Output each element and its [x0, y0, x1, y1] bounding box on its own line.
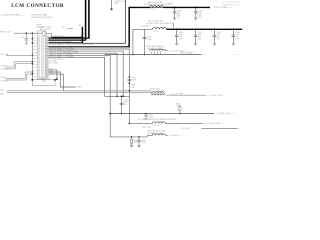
transistor Q4100 — [47, 33, 52, 35]
svg-text:C401: C401 — [21, 37, 25, 39]
filter L9 on top rail — [144, 2, 171, 11]
capacitor C421 — [194, 28, 202, 45]
connector left wire bus — [31, 33, 33, 79]
svg-text:57: 57 — [42, 77, 44, 79]
svg-text:LED-: LED- — [0, 94, 4, 96]
fanout wire F4 — [49, 55, 148, 137]
resistor R445 — [176, 103, 181, 114]
svg-text:LCDA_P: LCDA_P — [0, 65, 8, 68]
resistor R459 hanging — [130, 136, 139, 147]
thick bus rail right mid — [167, 28, 243, 30]
capacitor C423 — [232, 28, 240, 45]
svg-text:BKL_EN 1K: BKL_EN 1K — [40, 29, 51, 31]
svg-text:LCM CONNECTOR: LCM CONNECTOR — [11, 3, 64, 9]
svg-text:LCD_PWR_EN AA: LCD_PWR_EN AA — [49, 35, 65, 38]
svg-text:(LT_LIGHT+) -- --: (LT_LIGHT+) -- -- — [169, 135, 183, 137]
rail 113 — [110, 113, 214, 115]
svg-text:LCDB_N: LCDB_N — [0, 81, 8, 83]
svg-text:LCD_TEST: LCD_TEST — [49, 63, 59, 65]
svg-text:LISTED(S) PLAN: LISTED(S) PLAN — [31, 14, 48, 17]
svg-text:LCD_LED_PWR: LCD_LED_PWR — [171, 94, 184, 96]
power stub PP3V3_LCD — [111, 0, 126, 10]
capacitor C420 — [175, 28, 183, 45]
filter L10 — [146, 21, 173, 33]
bottom cluster: filter RP459 — [147, 131, 182, 138]
fanout wire F3 — [49, 53, 118, 96]
thick bus wire R2 net LVDS1 — [49, 39, 86, 41]
svg-text:PP3V3_LCD: PP3V3_LCD — [0, 31, 11, 33]
left wire W5 — [6, 74, 33, 80]
svg-text:47-30R5-71R-4-1-A-100-BK5-10: 47-30R5-71R-4-1-A-100-BK5-10 — [146, 22, 173, 25]
connector box J4500 — [38, 31, 45, 80]
svg-text:LCDA_N: LCDA_N — [0, 68, 8, 71]
left wire W3 — [6, 64, 33, 69]
left wire W4 — [6, 72, 33, 78]
backlight enable circuit Q4 — [0, 27, 73, 45]
svg-text:-- PP5V_LCDBKLT ------: -- PP5V_LCDBKLT ------ — [213, 7, 234, 9]
C435 R435 on F1 vertical — [128, 76, 138, 92]
svg-text:PP5V_LCDBKLT: PP5V_LCDBKLT — [180, 53, 194, 55]
capacitor C424 mid — [132, 29, 152, 55]
svg-text:LVDS_A_CLK_P 10-10HM-5: LVDS_A_CLK_P 10-10HM-5 — [49, 40, 72, 43]
svg-text:--- --: --- -- — [238, 128, 242, 130]
svg-text:J1 LVDS 40 PIN MLB: J1 LVDS 40 PIN MLB — [0, 15, 20, 17]
fanout wire F1 — [49, 49, 130, 123]
svg-text:LCD_CBL: LCD_CBL — [0, 54, 8, 56]
svg-text:LCD_BKLT: LCD_BKLT — [181, 128, 191, 130]
svg-text:LISTED(S) EDP VIEW: LISTED(S) EDP VIEW — [31, 17, 52, 19]
step wire S1 — [49, 70, 57, 79]
resistor pack RP42 — [147, 46, 191, 55]
fanout wire F2 — [49, 51, 124, 96]
svg-text:-- LCD_LED_PWR --: -- LCD_LED_PWR -- — [207, 95, 224, 97]
capacitor C440 — [120, 96, 129, 115]
svg-text:LED+: LED+ — [0, 89, 5, 91]
bottom cluster: PWM filter R457 — [129, 119, 226, 127]
svg-text:-- LCD_BKLT_PWM -- -- --: -- LCD_BKLT_PWM -- -- -- — [204, 123, 226, 125]
svg-text:BL: BL — [79, 25, 81, 27]
svg-text:1 2 3 4 5: 1 2 3 4 5 — [153, 125, 159, 127]
thick bus wire R3 net LVDS2 — [49, 42, 83, 44]
connector pin rows — [32, 36, 50, 80]
rail 96 — [105, 95, 130, 97]
svg-text:NOTE: BKLT PWR 25V: NOTE: BKLT PWR 25V — [223, 2, 243, 4]
svg-text:LVDS_A_DATA2_P + LVDS_A_CLK 10: LVDS_A_DATA2_P + LVDS_A_CLK 10-10HM-5-1/… — [49, 43, 93, 46]
capacitor C445 — [144, 113, 154, 120]
svg-text:LCDB_P: LCDB_P — [0, 77, 8, 79]
thick bus wire R1 net LVDS0 — [49, 37, 89, 39]
capacitor C459 hanging — [137, 136, 147, 147]
svg-text:LCD_BKLT_PWM R457 10-10HM-5%-: LCD_BKLT_PWM R457 10-10HM-5%-1/16W-X1 — [138, 119, 177, 121]
thick bus spur foot — [52, 36, 83, 38]
svg-text:----: ---- — [22, 15, 25, 17]
connector shell — [31, 77, 55, 85]
svg-text:1 2 3 4 5: 1 2 3 4 5 — [150, 9, 156, 11]
capacitor C418 — [173, 6, 181, 19]
svg-text:SHLD: SHLD — [77, 87, 82, 89]
medium bus wire R4 — [83, 42, 126, 44]
rail pair from left LED — [7, 90, 151, 92]
svg-text:VB1: VB1 — [46, 77, 49, 79]
svg-text:-- LCD_BKLT_EN_L -- -- ---: -- LCD_BKLT_EN_L -- -- --- — [215, 113, 237, 115]
svg-text:58: 58 — [38, 77, 40, 79]
svg-text:----: ---- — [203, 54, 206, 56]
left wire W1 — [6, 54, 32, 56]
step wire S2 — [49, 72, 76, 87]
step wire S3 — [49, 74, 151, 91]
rail mid — [105, 54, 202, 56]
svg-text:BKLT_EN: BKLT_EN — [143, 127, 152, 129]
left wire W2 — [6, 62, 33, 67]
svg-text:1 2 3 4 5: 1 2 3 4 5 — [153, 31, 159, 33]
svg-text:10-1OHM: 10-1OHM — [141, 25, 149, 27]
fanout wire F5 — [49, 57, 105, 96]
thick bus wire R5 to top rail — [49, 46, 130, 48]
svg-text:4 LCD: 4 LCD — [168, 3, 174, 5]
svg-text:-- --- --: -- --- -- — [233, 54, 239, 56]
capacitor C419 — [194, 6, 202, 19]
capacitor C422 — [213, 28, 221, 45]
wire to filter2 — [133, 29, 153, 54]
choke FL440 — [150, 88, 224, 97]
